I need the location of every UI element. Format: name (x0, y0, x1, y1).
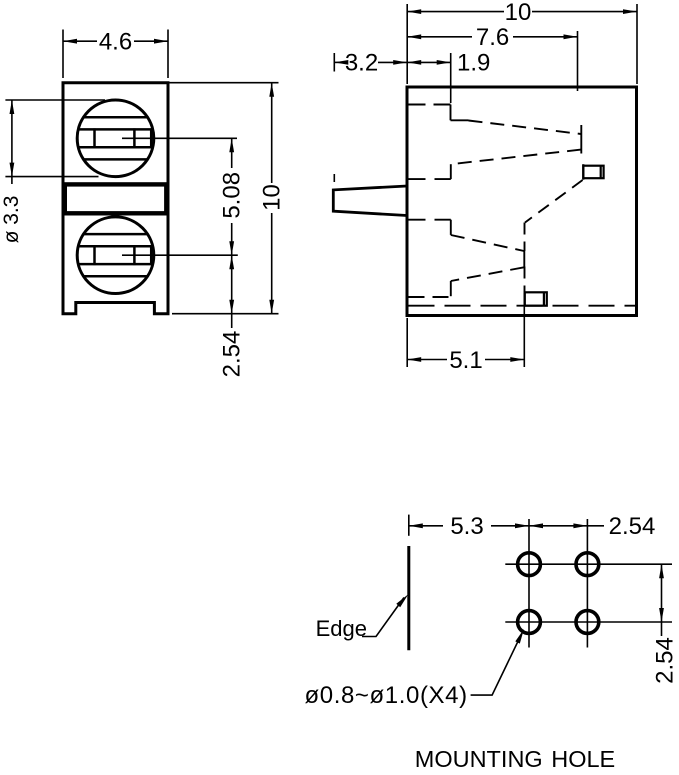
right lead vertical (524, 223, 526, 252)
body square (407, 87, 637, 316)
leader from bottom LED center (122, 254, 238, 256)
dimension 10 right view (407, 4, 637, 84)
top lead: lower edge (451, 150, 581, 165)
body outline with bottom feet (63, 83, 168, 314)
right lead diagonal from tab (525, 180, 583, 223)
dimension 3.2 (334, 53, 407, 182)
pcb edge line (407, 546, 410, 650)
middle divider band (65, 184, 167, 213)
hole column center lines (505, 519, 672, 648)
upper anchor tab (583, 164, 603, 180)
leader from top LED center (122, 137, 237, 139)
dimension 2.54 bottom left view (231, 255, 233, 328)
svg-text:5.3: 5.3 (450, 513, 483, 540)
hole row center lines (505, 563, 672, 565)
bottom LED internal chords (77, 234, 154, 276)
extension tick above edge (408, 515, 410, 536)
dimension 5.1 (407, 292, 524, 367)
svg-text:2.54: 2.54 (609, 513, 656, 540)
dimension 5.3 / 2.54 top (409, 525, 604, 527)
svg-text:7.6: 7.6 (476, 24, 509, 51)
svg-text:10: 10 (505, 0, 532, 26)
svg-text:5.1: 5.1 (449, 347, 482, 374)
bottom hidden line (pcb plane) (409, 305, 637, 307)
lower lead: tip vertical (523, 251, 525, 267)
lower lead: upper edge (409, 219, 451, 221)
svg-text:1.9: 1.9 (457, 50, 490, 77)
svg-text:5.08: 5.08 (219, 172, 246, 219)
top lead: upper edge (409, 104, 451, 106)
dimension dia 3.3 left (5, 100, 105, 184)
top lead: tip vertical (580, 125, 582, 154)
svg-text:4.6: 4.6 (99, 29, 132, 56)
svg-text:10: 10 (259, 184, 286, 211)
svg-text:ø 3.3: ø 3.3 (0, 196, 23, 244)
dimension 1.9 (407, 53, 451, 103)
dimension 2.54 right vertical (661, 564, 663, 636)
mounting hole circles (518, 553, 599, 634)
dimension 10 left view (168, 83, 279, 314)
lead pin protruding left (333, 186, 407, 216)
dimension 4.6 top (63, 30, 168, 79)
svg-text:ø0.8~ø1.0(X4): ø0.8~ø1.0(X4) (305, 682, 468, 709)
lower lead: lower edge (451, 267, 524, 281)
svg-text:2.54: 2.54 (652, 637, 679, 684)
dimension 5.08 (231, 138, 233, 255)
svg-text:MOUNTING HOLE: MOUNTING HOLE (415, 746, 615, 772)
hidden lead frame lines (409, 105, 637, 306)
lower anchor tab (525, 292, 547, 305)
svg-text:Edge: Edge (316, 616, 367, 641)
svg-text:2.54: 2.54 (219, 331, 246, 378)
dimension 7.6 (407, 31, 577, 91)
svg-text:3.2: 3.2 (345, 50, 378, 77)
top LED internal chords (77, 117, 154, 159)
